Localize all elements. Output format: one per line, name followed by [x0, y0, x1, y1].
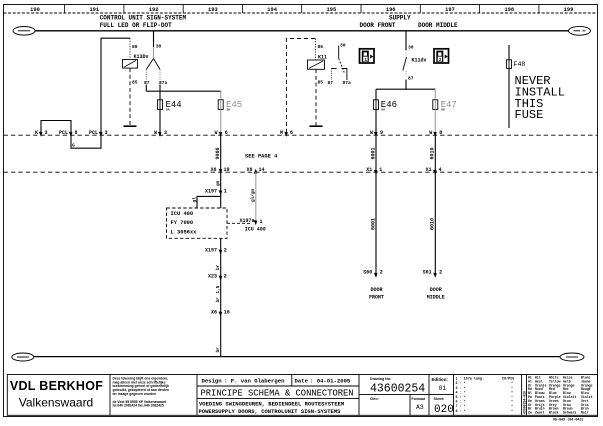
svg-text:VOEDING SWINGDEUREN, BEDIENDEE: VOEDING SWINGDEUREN, BEDIENDEEL ROUTESYS…	[199, 401, 345, 408]
svg-text:6001: 6001	[370, 147, 376, 159]
svg-text:195: 195	[327, 7, 337, 13]
svg-text:87: 87	[328, 80, 334, 86]
svg-text:DOOR: DOOR	[370, 287, 382, 293]
subtitle	[199, 401, 345, 416]
warning text	[515, 74, 565, 122]
svg-text:1: 1	[379, 167, 382, 173]
svg-text:Schwarz: Schwarz	[563, 411, 576, 415]
node W 6	[214, 130, 227, 136]
relay contact K11dv	[403, 45, 427, 82]
svg-text:*: *	[511, 381, 513, 386]
K11 dashed enclosure	[286, 39, 315, 134]
svg-text:9: 9	[380, 130, 383, 136]
svg-text:43600254: 43600254	[370, 383, 425, 396]
svg-text:PRINCIPE SCHEMA & CONNECTOREN: PRINCIPE SCHEMA & CONNECTOREN	[201, 389, 354, 399]
wire 6010 to door middle	[434, 135, 436, 277]
relay coil K13Dv	[123, 38, 149, 125]
svg-text:gl/gn: gl/gn	[251, 188, 256, 202]
svg-text:30: 30	[408, 45, 414, 51]
svg-text:194: 194	[267, 7, 277, 13]
svg-text:2: 2	[380, 270, 383, 276]
fuse E45	[218, 100, 242, 112]
node S60 2	[363, 270, 383, 276]
svg-text:6: 6	[290, 130, 293, 136]
svg-text:*: *	[511, 386, 513, 391]
svg-text:SEE PAGE 4: SEE PAGE 4	[245, 153, 278, 159]
svg-text:X197: X197	[205, 188, 217, 194]
svg-text:DOOR FRONT: DOOR FRONT	[360, 22, 396, 29]
fuse E47	[433, 100, 457, 112]
svg-text:1 : 197a lang.: 1 : 197a lang.	[456, 377, 485, 382]
svg-text:Drawing No:: Drawing No:	[370, 377, 391, 381]
node W 3	[154, 130, 167, 136]
svg-text:br: br	[216, 347, 221, 353]
door middle label	[427, 287, 445, 300]
drawing number	[370, 377, 426, 411]
svg-text:S61: S61	[423, 270, 432, 276]
svg-text:PCL: PCL	[89, 130, 98, 136]
svg-text:K11dv: K11dv	[412, 58, 427, 64]
node X197 2	[205, 248, 227, 254]
svg-text:87: 87	[408, 76, 414, 82]
svg-text:CU/PC5: CU/PC5	[502, 377, 514, 382]
svg-text:2: 2	[224, 248, 227, 254]
bottom bus ground	[34, 356, 560, 358]
svg-text:01: 01	[439, 385, 447, 392]
wire through E46	[375, 89, 377, 136]
svg-text:X197a: X197a	[239, 218, 254, 224]
svg-text:*: *	[511, 395, 513, 400]
svg-text:8: 8	[439, 130, 442, 136]
svg-text:7 : *: 7 : *	[456, 404, 466, 409]
svg-text:ICU 400: ICU 400	[245, 227, 266, 233]
svg-text:1: 1	[224, 188, 227, 194]
svg-text:Edition:: Edition:	[432, 377, 449, 382]
wire 9066 W6 to X6	[220, 135, 222, 172]
svg-text:9066: 9066	[215, 147, 221, 159]
svg-text:5A: 5A	[227, 108, 231, 111]
edition / sheet	[432, 377, 454, 416]
svg-text:19: 19	[224, 167, 230, 173]
svg-text:8 : *: 8 : *	[456, 409, 466, 414]
svg-text:POWERSUPPLY DOORS, CONTROLUNIT: POWERSUPPLY DOORS, CONTROLUNIT SIGN-SYST…	[199, 408, 342, 415]
bus terminal oval bottom-right	[560, 353, 584, 361]
wire 87 to junction	[405, 80, 407, 90]
svg-text:190: 190	[30, 7, 40, 13]
node X197 1	[205, 188, 227, 194]
bus terminal oval top-right	[569, 26, 591, 35]
svg-text:*: *	[511, 409, 513, 414]
svg-text:3: 3	[105, 130, 108, 136]
svg-text:199: 199	[564, 7, 574, 13]
wire 87a down	[159, 85, 161, 92]
wire through E45 (grey)	[220, 91, 222, 135]
bus terminal oval top-left	[13, 27, 35, 36]
fuse F48 never install	[507, 45, 526, 128]
svg-text:30: 30	[156, 44, 162, 50]
svg-text:VDL BERKHOF: VDL BERKHOF	[10, 379, 103, 393]
svg-text:W: W	[154, 130, 157, 136]
node PCL 8	[59, 130, 78, 136]
svg-text:DOOR: DOOR	[430, 287, 442, 293]
svg-text:L 3056xx: L 3056xx	[171, 230, 198, 236]
node M 6	[280, 130, 293, 136]
door front label	[369, 287, 384, 300]
dashed link to X197a	[227, 222, 252, 224]
wire horizontal feed to fuses	[146, 90, 220, 92]
title block frame	[7, 375, 597, 416]
svg-text:X6: X6	[246, 167, 252, 173]
svg-text:*: *	[511, 400, 513, 405]
svg-text:gl: gl	[193, 197, 198, 203]
svg-text:*: *	[511, 390, 513, 395]
wire ICU to ground bus	[220, 238, 222, 356]
door icon 2 middle	[434, 49, 449, 63]
wire junction horizontal	[376, 88, 435, 90]
svg-text:5A: 5A	[166, 108, 170, 111]
svg-text:Date: Date	[295, 377, 309, 384]
svg-text:Zw: Zw	[528, 411, 532, 415]
svg-text:4 : *: 4 : *	[456, 390, 466, 395]
node X6 14	[246, 167, 264, 173]
svg-text:Formaat: Formaat	[412, 397, 426, 401]
ground for K11 coil	[310, 125, 323, 127]
svg-text:Zwart: Zwart	[535, 411, 545, 415]
wire through E47 (grey)	[434, 89, 436, 135]
svg-text:196: 196	[386, 7, 396, 13]
svg-text:Noir: Noir	[581, 411, 589, 415]
wire gn X6 to X197	[220, 172, 222, 195]
node X1 1	[366, 167, 382, 173]
svg-text:tel.040 2082424 fax.040 208242: tel.040 2082424 fax.040 2082425	[113, 404, 164, 408]
svg-text:FULL LED OR FLIP-DOT: FULL LED OR FLIP-DOT	[100, 22, 172, 29]
svg-text:FY 7000: FY 7000	[171, 220, 194, 226]
svg-text:14: 14	[259, 167, 265, 173]
svg-text:6010: 6010	[430, 218, 436, 230]
svg-text:W: W	[429, 130, 432, 136]
wire K3 to PCL8 loop	[41, 121, 71, 136]
svg-text:CONTROL UNIT SIGN-SYSTEM: CONTROL UNIT SIGN-SYSTEM	[100, 15, 187, 22]
svg-text:020: 020	[434, 404, 454, 416]
svg-text:3: 3	[45, 130, 48, 136]
node X6 19	[210, 167, 229, 173]
svg-text:ter inzage gegeven worden: ter inzage gegeven worden	[113, 392, 157, 396]
partition dashed line 2	[4, 171, 598, 173]
svg-text:S60: S60	[363, 270, 372, 276]
node W 8	[429, 130, 442, 136]
svg-text:8: 8	[75, 130, 78, 136]
svg-text:30: 30	[340, 43, 346, 49]
svg-text:192: 192	[149, 7, 159, 13]
wire riser to K13Dv coil	[101, 38, 130, 135]
svg-text:1: 1	[260, 219, 263, 225]
design / date row	[202, 377, 351, 384]
svg-text:6: 6	[225, 130, 228, 136]
svg-text:6010: 6010	[430, 147, 436, 159]
node W 9	[370, 130, 383, 136]
svg-text:1,5: 1,5	[216, 285, 221, 293]
relay contact K11 30/87/87a (reference)	[328, 43, 352, 87]
svg-text:F48: F48	[514, 61, 526, 68]
svg-text:87a: 87a	[343, 80, 352, 86]
svg-text:Design: Design	[202, 377, 223, 384]
svg-text:3 : *: 3 : *	[456, 386, 466, 391]
svg-text:3: 3	[164, 130, 167, 136]
svg-text:X1: X1	[366, 167, 372, 173]
svg-text:FUSE: FUSE	[515, 108, 544, 122]
fuse E46	[374, 100, 398, 112]
svg-text:4: 4	[439, 167, 442, 173]
wire from +30 bus to K13Dv contact	[153, 31, 155, 47]
svg-text:6001: 6001	[370, 218, 376, 230]
svg-text:Valkenswaard: Valkenswaard	[19, 395, 93, 409]
svg-text:87: 87	[144, 80, 150, 86]
svg-text:Gec:: Gec:	[370, 396, 379, 401]
svg-text:2: 2	[439, 270, 442, 276]
wire 6001 to door front	[375, 135, 377, 277]
partition dashed line 1	[4, 134, 598, 136]
svg-text:2: 2	[224, 274, 227, 280]
svg-text:X23: X23	[208, 274, 217, 280]
svg-text:: F. van Glabergen: : F. van Glabergen	[224, 377, 285, 384]
svg-text:MIDDLE: MIDDLE	[427, 294, 445, 300]
svg-text:PCL: PCL	[59, 130, 68, 136]
heading supply	[360, 15, 459, 29]
svg-text:2 : *: 2 : *	[456, 381, 466, 386]
svg-text:16: 16	[224, 310, 230, 316]
svg-text:: 04-01-2005: : 04-01-2005	[310, 377, 351, 384]
ground for K13Dv coil	[124, 125, 137, 127]
top bus +30	[35, 30, 569, 32]
svg-text:FRONT: FRONT	[369, 294, 384, 300]
svg-text:*: *	[511, 404, 513, 409]
svg-text:G: G	[72, 143, 75, 149]
svg-text:85: 85	[318, 80, 324, 86]
svg-text:W: W	[214, 130, 217, 136]
svg-text:85: 85	[132, 80, 138, 86]
svg-text:86: 86	[132, 44, 138, 50]
svg-text:Sheet:: Sheet:	[434, 397, 445, 401]
svg-text:X1: X1	[426, 167, 432, 173]
node X1 4	[426, 167, 442, 173]
svg-text:X197: X197	[205, 248, 217, 254]
svg-text:M: M	[280, 130, 283, 136]
wire branch gl into ICU	[197, 195, 221, 208]
svg-text:5 : *: 5 : *	[456, 395, 466, 400]
svg-text:5A: 5A	[441, 108, 445, 111]
node PCL 3	[89, 130, 108, 136]
svg-text:gn: gn	[216, 180, 221, 186]
node X197a 1	[239, 218, 262, 225]
node S61 2	[423, 270, 443, 276]
svg-text:198: 198	[504, 7, 514, 13]
svg-text:br: br	[216, 264, 221, 270]
svg-text:K: K	[35, 130, 38, 136]
svg-text:05-049 (04-043): 05-049 (04-043)	[553, 418, 584, 421]
node K 3	[35, 130, 48, 136]
svg-text:X6: X6	[210, 167, 216, 173]
wire from +30 bus to K11dv contact	[405, 31, 407, 50]
svg-text:43600254-020: 43600254-020	[523, 391, 527, 414]
company name	[10, 379, 103, 410]
wire gl/gn X6 14 to X197a (grey)	[255, 172, 257, 223]
colour code table	[528, 376, 593, 415]
svg-text:ICU 400: ICU 400	[171, 211, 194, 217]
svg-text:86: 86	[318, 44, 324, 50]
ICU 400 control unit box	[167, 208, 228, 238]
revision notes	[456, 377, 515, 414]
svg-text:A3: A3	[416, 404, 424, 411]
svg-text:191: 191	[89, 7, 99, 13]
wire through E44	[159, 91, 161, 136]
fuse E44	[158, 100, 182, 112]
node X23 2	[208, 274, 227, 280]
disclaimer text	[113, 376, 170, 407]
node X6 16	[211, 310, 230, 316]
wire into ICU	[220, 196, 222, 208]
heading control unit	[100, 15, 187, 29]
door icon 1 front	[360, 49, 375, 63]
wire 87 down	[145, 85, 147, 92]
svg-text:DOOR MIDDLE: DOOR MIDDLE	[418, 22, 458, 29]
wire G loop PCL8-PCL3	[71, 135, 101, 148]
svg-text:SUPPLY: SUPPLY	[389, 15, 411, 22]
svg-text:W: W	[370, 130, 373, 136]
svg-text:X6: X6	[211, 310, 217, 316]
svg-text:5A: 5A	[381, 108, 385, 111]
svg-text:197: 197	[445, 7, 455, 13]
bus terminal oval bottom-left	[12, 353, 34, 361]
svg-text:193: 193	[208, 7, 218, 13]
relay coil K11	[308, 39, 328, 126]
column numbers 190-199	[30, 7, 573, 13]
svg-text:br: br	[216, 297, 221, 303]
svg-text:Black: Black	[549, 411, 559, 415]
relay contact K13Dv 30/87/87a	[144, 44, 168, 87]
svg-text:6 : *: 6 : *	[456, 400, 466, 405]
column ticks	[65, 5, 539, 14]
